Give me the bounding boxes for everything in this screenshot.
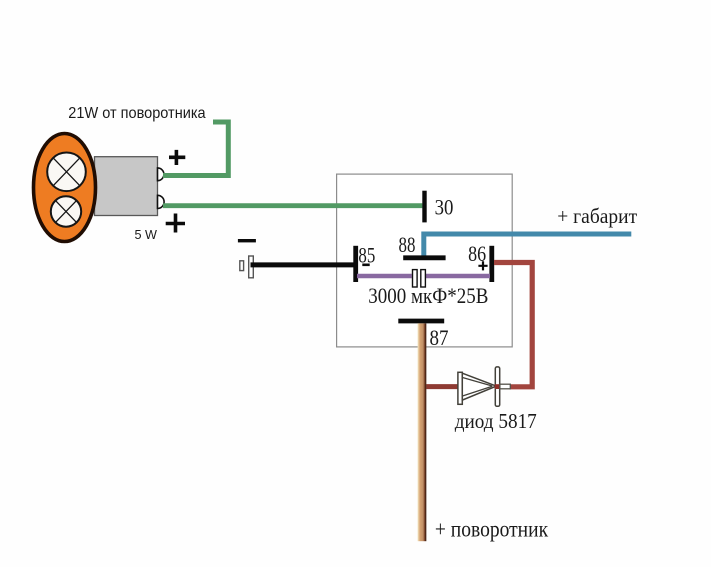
pin 86 [489, 246, 494, 282]
ground spade connector [240, 256, 254, 278]
diode D 5817 cathode stub [500, 384, 510, 389]
diode junction red dot [495, 384, 500, 389]
bulb filament symbol 21W [47, 153, 86, 192]
wire: orange поворотник feed [418, 323, 427, 541]
diode D 5817 cathode bar [495, 367, 499, 406]
relay box [337, 174, 513, 347]
lamp terminal pin 2 [158, 195, 165, 208]
minus mark at pin 85 [362, 264, 369, 267]
svg-text:21W от поворотника: 21W от поворотника [68, 105, 205, 122]
plus mark at pin 86 [478, 261, 487, 270]
svg-text:5 W: 5 W [135, 227, 158, 242]
pin 30 [422, 191, 426, 223]
wire: red from pin 86 down to diode [494, 263, 532, 387]
svg-text:88: 88 [399, 232, 416, 257]
bulb filament symbol 5W [51, 196, 81, 226]
minus label near ground connector [238, 239, 256, 242]
plus terminal 1 symbol [169, 150, 185, 165]
capacitor C 3000uF plates [413, 270, 426, 287]
wire: black ground to pin 85 [251, 262, 357, 267]
svg-text:3000 мкФ*25В: 3000 мкФ*25В [368, 283, 488, 308]
svg-text:+ габарит: + габарит [557, 204, 637, 228]
diode D 5817 anode plate [458, 372, 462, 404]
lamp terminal pin 1 [158, 168, 164, 181]
pin 88 [403, 255, 445, 260]
wire: purple capacitor link 85 to 86 [357, 274, 490, 279]
wire: green from 21W terminal up to label [163, 122, 228, 176]
wire: red from orange wire to diode anode [425, 384, 458, 389]
lamp socket [95, 157, 158, 216]
pin 87 [398, 319, 444, 324]
diode D 5817 triangle [462, 373, 496, 400]
pin 85 [353, 246, 358, 282]
wire: green from 5W terminal to relay pin 30 [163, 203, 422, 208]
svg-text:87: 87 [430, 325, 449, 350]
svg-text:диод 5817: диод 5817 [455, 409, 537, 433]
lamp bulb body [34, 134, 96, 242]
svg-text:30: 30 [435, 195, 454, 220]
svg-text:+ поворотник: + поворотник [435, 517, 549, 542]
plus terminal 2 symbol [166, 214, 185, 233]
wire: blue габарит feed [424, 234, 632, 256]
